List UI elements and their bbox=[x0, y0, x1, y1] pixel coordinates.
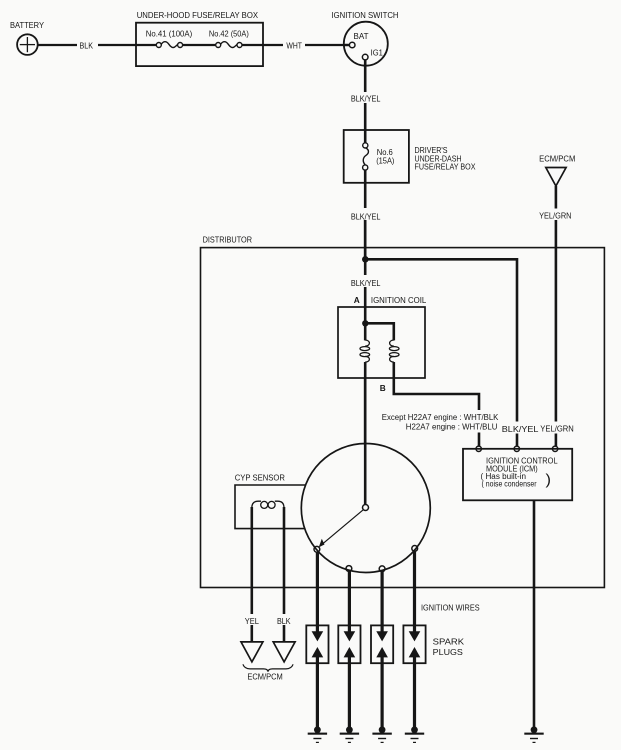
svg-text:WHT: WHT bbox=[286, 40, 302, 50]
svg-text:BLK: BLK bbox=[277, 616, 291, 626]
svg-text:Except H22A7 engine : WHT/BLK: Except H22A7 engine : WHT/BLK bbox=[382, 412, 499, 422]
svg-text:IGNITION COIL: IGNITION COIL bbox=[371, 295, 427, 305]
svg-text:IGNITION WIRES: IGNITION WIRES bbox=[421, 603, 480, 613]
svg-text:BLK/YEL: BLK/YEL bbox=[351, 278, 381, 288]
svg-text:A: A bbox=[354, 295, 360, 305]
svg-text:IG1: IG1 bbox=[371, 48, 384, 58]
svg-text:ECM/PCM: ECM/PCM bbox=[539, 153, 575, 163]
svg-text:BATTERY: BATTERY bbox=[10, 20, 44, 30]
svg-text:FUSE/RELAY BOX: FUSE/RELAY BOX bbox=[415, 162, 476, 172]
svg-text:( noise condenser: ( noise condenser bbox=[482, 480, 537, 489]
svg-text:BAT: BAT bbox=[354, 31, 369, 41]
svg-text:YEL/GRN: YEL/GRN bbox=[539, 210, 571, 220]
svg-text:No.42 (50A): No.42 (50A) bbox=[209, 28, 249, 38]
svg-text:ECM/PCM: ECM/PCM bbox=[247, 671, 282, 681]
svg-text:BLK: BLK bbox=[80, 40, 94, 50]
svg-text:PLUGS: PLUGS bbox=[433, 647, 464, 657]
svg-text:YEL/GRN: YEL/GRN bbox=[540, 423, 574, 433]
svg-text:UNDER-HOOD FUSE/RELAY BOX: UNDER-HOOD FUSE/RELAY BOX bbox=[137, 10, 259, 20]
svg-text:): ) bbox=[546, 472, 552, 489]
svg-text:CYP SENSOR: CYP SENSOR bbox=[235, 473, 285, 483]
svg-text:(15A): (15A) bbox=[376, 156, 394, 166]
svg-text:H22A7 engine : WHT/BLU: H22A7 engine : WHT/BLU bbox=[406, 422, 498, 432]
svg-text:BLK/YEL: BLK/YEL bbox=[502, 424, 539, 434]
svg-text:B: B bbox=[380, 383, 386, 393]
svg-text:IGNITION SWITCH: IGNITION SWITCH bbox=[332, 10, 399, 20]
svg-text:No.41 (100A): No.41 (100A) bbox=[146, 28, 193, 38]
svg-text:YEL: YEL bbox=[245, 616, 259, 626]
svg-text:DISTRIBUTOR: DISTRIBUTOR bbox=[203, 235, 252, 245]
svg-text:BLK/YEL: BLK/YEL bbox=[351, 94, 381, 104]
svg-text:SPARK: SPARK bbox=[433, 636, 465, 646]
